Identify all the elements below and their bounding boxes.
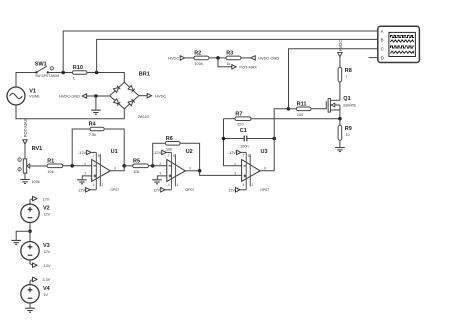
wire U2 out to U3 pin 3 [200,171,242,176]
wire U2 output [185,170,199,172]
node R11 junction [287,107,291,111]
svg-text:1: 1 [176,183,178,187]
svg-text:V3: V3 [43,243,50,249]
svg-text:U1: U1 [111,149,118,155]
power flag 12V of U1 [78,188,96,193]
resistor R2 [194,51,209,66]
svg-text:3: 3 [159,172,161,176]
wire R1 to U1 pin 2 [63,165,92,167]
svg-text:1V: 1V [43,292,48,297]
wire R7 left lead [224,118,236,120]
wire V2 minus to junction [29,223,31,232]
wire R2 to R3 [209,57,226,59]
svg-text:1: 1 [251,183,253,187]
svg-text:C: C [381,47,384,52]
svg-text:A: A [381,29,384,34]
svg-text:C1: C1 [240,128,247,134]
power flag -12V of U2 [153,150,171,155]
resistor R5 [133,158,149,173]
svg-text:HVDC-GND: HVDC-GND [59,94,80,99]
svg-text:12V: 12V [228,188,235,193]
svg-text:7.5k: 7.5k [89,132,96,137]
svg-text:100k: 100k [194,61,202,66]
svg-text:-12V: -12V [78,150,87,155]
svg-text:R10: R10 [73,65,83,71]
svg-text:R7: R7 [235,111,242,117]
svg-text:7: 7 [243,154,245,158]
source V4 [21,285,51,303]
op-amp U1 triangle [92,160,111,182]
svg-text:2: 2 [84,162,86,166]
wire HVDC to R2 [185,57,194,59]
svg-text:7: 7 [93,154,95,158]
capacitor C1 [240,128,249,149]
resistor R4 [89,122,105,137]
wire to scope channel A [63,31,377,73]
wire SW1 to R10 [48,72,73,74]
svg-text:7: 7 [168,154,170,158]
svg-text:1: 1 [73,76,75,81]
wire bottom loop V1 to bridge bottom [16,105,124,119]
svg-text:OP07: OP07 [110,188,119,192]
svg-text:V2: V2 [43,206,50,212]
svg-text:R1: R1 [47,158,54,164]
wire to scope channel C [289,49,378,109]
svg-text:RV1: RV1 [32,146,43,152]
svg-text:SW-SPST-MOM: SW-SPST-MOM [35,74,59,78]
svg-text:R11: R11 [297,102,307,108]
svg-text:8: 8 [98,154,100,158]
wire C1 right lead [247,138,274,140]
svg-text:6: 6 [189,166,191,170]
svg-text:8: 8 [248,154,250,158]
svg-text:100k: 100k [31,179,39,184]
wire U1 output jog [110,166,124,171]
resistor R7 [235,111,251,126]
svg-text:12V: 12V [43,212,50,217]
svg-text:R5: R5 [133,158,140,164]
svg-text:10: 10 [345,132,350,137]
ground at bridge [91,96,101,114]
ground at U2 pin 3 [152,176,167,184]
power flag 12V of U2 [153,188,171,193]
node scope-A tap junction [61,71,65,75]
svg-text:10k: 10k [47,169,53,174]
node U1 input junction [70,164,74,168]
wire R4 to U1 output [104,129,124,166]
resistor R1 [47,158,63,173]
node C1 left junction [222,137,226,141]
wire HVDC-GND to bridge left vertex [87,95,110,97]
wire RV1 wiper to R1 [30,165,47,167]
power flag 12V at V2 [30,196,50,204]
node divider tap junction [216,56,220,60]
svg-text:10k: 10k [166,146,172,151]
svg-text:-12V: -12V [228,150,237,155]
terminal POT-MAX above RV1 [23,119,28,144]
svg-text:1: 1 [101,183,103,187]
svg-text:BR1: BR1 [139,71,150,77]
wire U3 output up to R11 line [260,109,288,171]
power flag 12V of U3 [228,188,246,193]
svg-text:12V: 12V [43,249,50,254]
svg-text:100n: 100n [240,144,249,149]
svg-text:R3: R3 [226,51,233,57]
svg-text:220: 220 [237,122,244,127]
svg-text:-12V: -12V [153,150,162,155]
svg-text:100: 100 [297,112,304,117]
resistor R9 [338,125,352,140]
power flag 3.3V at V4 [30,277,51,284]
node C1 right junction [272,137,276,141]
svg-text:D: D [381,56,384,61]
power flag -12V of U1 [78,150,96,155]
node U2 input junction [151,164,155,168]
terminal HVDC-GND at bridge [59,94,87,99]
node V2/V3 junction [28,229,32,233]
op-amp U3 triangle [242,160,261,182]
svg-text:4: 4 [93,183,95,187]
wire R11 left lead [289,108,297,110]
resistor R3 [226,51,241,66]
op-amp U1 supply pin lines [93,152,104,189]
svg-text:4: 4 [243,183,245,187]
op-amp U3 labels [234,149,269,192]
svg-text:HVDC: HVDC [168,56,179,61]
transistor Q1 BUK456 [328,96,356,119]
svg-text:U2: U2 [186,149,193,155]
svg-text:8: 8 [173,154,175,158]
svg-text:2W10G: 2W10G [138,115,150,119]
wire scope channel D stub [369,57,378,59]
wire V1 top to SW1 [16,73,36,88]
svg-text:2: 2 [159,162,161,166]
node Q1 source junction [338,117,342,121]
svg-text:HVDC-GND: HVDC-GND [258,56,279,61]
svg-text:SW1: SW1 [35,61,47,67]
node scope-B tap junction [95,71,99,75]
svg-text:3: 3 [234,172,236,176]
op-amp U2 labels [159,149,194,192]
oscilloscope [378,26,420,62]
wire R7 right lead to Q1 source node [251,118,340,120]
terminal POT-MAX tap [232,65,258,70]
wire feedback up to R6 [153,143,166,166]
wire R11 to Q1 gate [311,101,326,109]
svg-text:R6: R6 [166,136,173,142]
svg-text:6: 6 [264,166,266,170]
resistor R8 [338,67,352,82]
svg-text:U3: U3 [261,149,268,155]
svg-text:12V: 12V [153,188,160,193]
wire feedback node to U3 pin 2 [224,119,242,166]
wire Q1 drain to R8 [339,82,341,100]
terminal HVDC at bridge output [139,93,167,98]
wire C1 left lead [224,138,245,140]
wire R3 to HVDC-GND [241,57,251,59]
ground below V4 [25,303,35,312]
resistor R10 [72,65,87,80]
ground below RV1 [20,173,30,183]
wire junction to V3 plus [29,231,31,241]
svg-text:3.3V: 3.3V [42,277,50,282]
op-amp U3 supply pin lines [243,152,254,189]
terminal HVDC feed to R2 [168,56,184,61]
svg-text:12V: 12V [42,196,49,201]
wire U1 out to R5 [124,165,133,167]
svg-text:HVDC: HVDC [338,40,343,52]
svg-text:VSINE: VSINE [29,95,40,99]
source V2 [21,204,51,222]
svg-text:10k: 10k [133,169,139,174]
wire divider tap to POT-MAX [218,58,232,67]
power flag -12V of U3 [228,150,246,155]
svg-text:R2: R2 [194,51,201,57]
svg-text:4: 4 [168,183,170,187]
svg-text:Q1: Q1 [343,96,350,102]
ground below R9 [335,140,345,151]
resistor R6 [165,136,180,151]
power flag HVDC above R8 [338,40,343,57]
wire R6 to U2 output [180,143,200,171]
node U1 output junction [122,164,126,168]
source V3 [21,242,51,260]
power flag -12V at V3 [30,260,51,268]
svg-text:V4: V4 [43,286,51,292]
wire source node to R9 [339,119,341,126]
wire R5 to U2 pin 2 [149,165,167,167]
op-amp U2 triangle [167,160,186,182]
potentiometer RV1 [18,146,42,184]
wire R10 to bridge top [87,73,124,83]
ground at V2/V3 junction [11,231,30,244]
switch SW1 [35,61,60,78]
bridge rectifier BR1 [110,71,150,119]
svg-text:12V: 12V [78,188,85,193]
svg-text:POT-MAX: POT-MAX [23,119,28,138]
source V1 VSINE [7,87,40,105]
svg-text:1k: 1k [226,61,230,66]
svg-text:7: 7 [345,74,347,79]
svg-text:3: 3 [84,172,86,176]
svg-text:6: 6 [114,166,116,170]
svg-text:POT-MAX: POT-MAX [239,65,257,70]
wire POT-MAX to RV1 [24,144,26,159]
svg-text:HVDC: HVDC [155,93,166,98]
op-amp U1 labels [84,149,119,192]
wire HVDC flag to R8 [339,57,341,67]
resistor R11 [296,102,311,117]
node U2 output junction [198,169,202,173]
svg-text:-12V: -12V [42,263,51,268]
ground at U1 pin 3 [77,176,92,184]
op-amp U2 supply pin lines [168,152,179,189]
svg-text:BUK456: BUK456 [344,103,356,107]
svg-text:R4: R4 [89,122,97,128]
svg-text:OP07: OP07 [185,188,194,192]
terminal HVDC-GND right [251,56,280,61]
svg-text:OP07: OP07 [260,188,269,192]
wire to scope channel B [97,39,378,72]
svg-text:B: B [381,38,384,43]
node bridge-left ground junction [94,94,98,98]
wire feedback up to R4 [72,129,90,166]
